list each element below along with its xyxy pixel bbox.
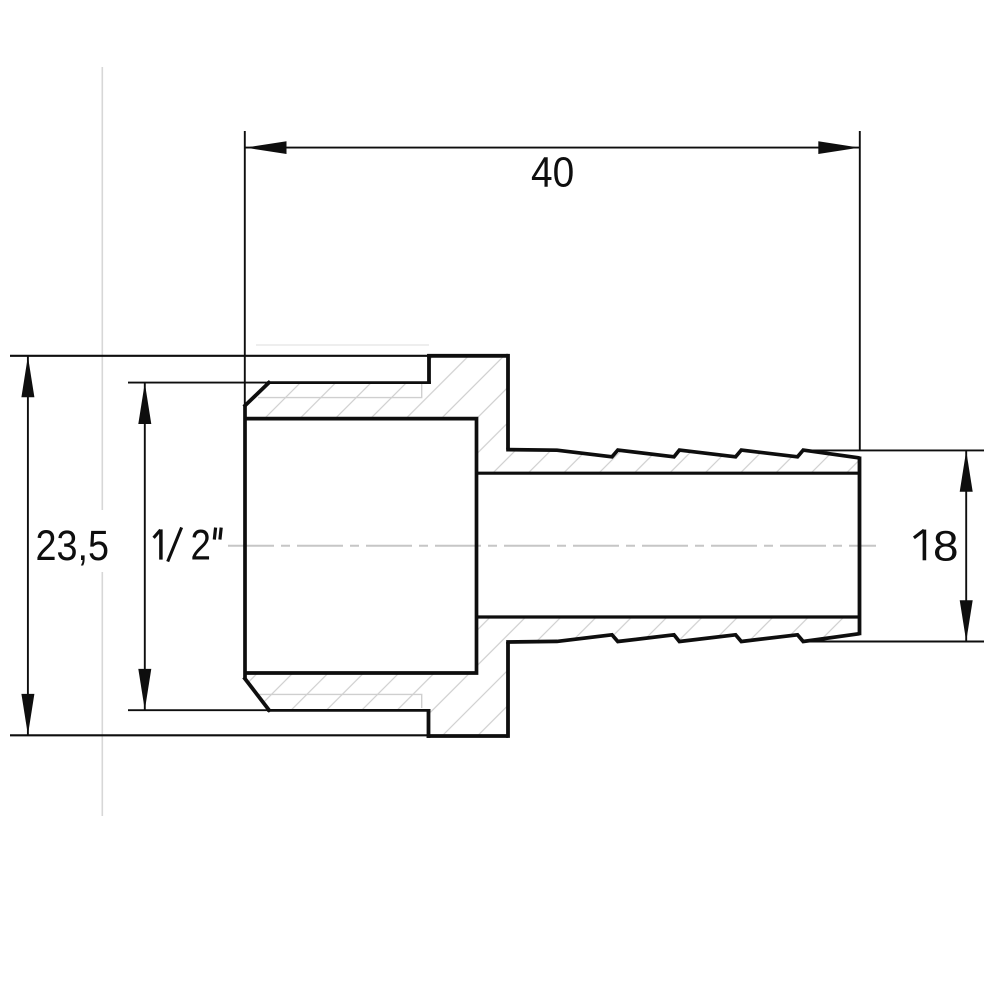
dim 40: right arrow xyxy=(818,141,859,154)
dim 23,5: dimension line xyxy=(27,356,29,735)
thread inner line bottom xyxy=(267,709,430,712)
part outline: bottom thin outer line xyxy=(10,734,429,736)
tube bore bottom line xyxy=(477,615,860,618)
chamfer top-left xyxy=(244,381,270,406)
dim 18: extension bottom xyxy=(805,641,984,643)
left face edge xyxy=(243,405,247,679)
thread relief step bottom xyxy=(427,709,431,738)
dim 40: dimension line xyxy=(245,147,860,149)
dim 18: top arrow xyxy=(960,451,973,492)
dim 40: left arrow xyxy=(245,141,286,154)
part outline: bottom thick outer segment xyxy=(427,734,508,738)
barb profile bottom xyxy=(506,634,859,642)
part outline: top thin outer line xyxy=(10,355,429,357)
dim 1/2": digit 1 flag xyxy=(154,530,161,538)
socket right face bottom xyxy=(506,642,510,738)
right end face xyxy=(858,457,862,636)
dim 1/2": extension top xyxy=(128,382,270,384)
dim 1/2": bottom arrow xyxy=(138,669,151,710)
dim 1/2": dimension line xyxy=(144,383,146,711)
dim 18: extension top xyxy=(805,449,984,451)
part outline: top thick outer segment xyxy=(427,354,508,358)
dim 1/2": extension bottom xyxy=(128,709,270,711)
centerline (dash-dot) xyxy=(228,545,876,547)
socket right face top xyxy=(506,354,510,450)
dim 1/2": slash xyxy=(168,527,182,561)
dim 1/2": digit 1 stem xyxy=(159,529,163,559)
dim 18: bottom arrow xyxy=(960,600,973,641)
dim 23,5: bottom arrow xyxy=(21,694,34,735)
barb profile top xyxy=(506,450,859,458)
svg-text:23,5: 23,5 xyxy=(36,523,110,570)
dim 1/2": inch tick 2 xyxy=(220,528,221,540)
dim 40: extension line right xyxy=(859,131,861,450)
faint thread major line above top xyxy=(256,344,429,346)
svg-text:2: 2 xyxy=(191,522,211,569)
dim 23,5: text mask xyxy=(33,510,115,572)
dim 18: digit 1 flag xyxy=(914,530,924,538)
svg-text:40: 40 xyxy=(531,149,574,196)
dim 1/2": top arrow xyxy=(138,383,151,424)
dim 18: dimension line xyxy=(965,450,967,641)
faint thread crest line bottom xyxy=(258,694,422,708)
dim 18: digit 1 stem xyxy=(923,530,927,561)
tube bore top line xyxy=(477,472,860,475)
svg-text:8: 8 xyxy=(933,523,959,570)
dim 1/2": inch tick 1 xyxy=(214,528,215,540)
socket bore outline xyxy=(245,417,477,675)
faint thread crest line top xyxy=(258,384,422,398)
thread inner line top xyxy=(267,381,431,384)
thread relief step top xyxy=(427,354,431,384)
construction line (vertical gray) xyxy=(101,67,103,816)
dim 23,5: top arrow xyxy=(21,356,34,397)
chamfer bottom-left xyxy=(244,677,270,711)
hatching xyxy=(235,350,875,745)
dim 40: extension line left xyxy=(244,131,246,405)
